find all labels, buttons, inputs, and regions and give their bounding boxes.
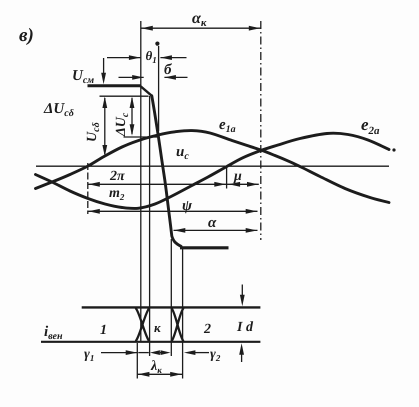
vertical extension line V4 (steep line bottom to lower diagram, x=171.3)	[170, 239, 172, 356]
Id height arrow above top line	[240, 285, 245, 307]
dimension lambda_k (y=374.3)	[138, 372, 182, 377]
dimension row gamma1 / k-gap / gamma2 (y=352.6)	[101, 350, 209, 355]
label Id	[236, 320, 254, 335]
label e2a	[361, 115, 396, 152]
vertical extension line V5 (end of commutation to lower diagram, x=182.6)	[182, 247, 184, 379]
valve current baseline	[41, 341, 260, 343]
svg-text:α: α	[208, 215, 217, 231]
dash-dot vertical line at curve crossing (x=260.8)	[260, 21, 262, 240]
svg-text:e2а: e2а	[361, 115, 380, 137]
extension line at uc/e1a crossing level (y=137)	[124, 136, 158, 138]
svg-text:2π: 2π	[109, 169, 125, 184]
svg-text:uс: uс	[176, 144, 189, 162]
extension line below Ucm level (reference y=96)	[100, 95, 149, 97]
flat bottom segment of uc	[180, 246, 229, 249]
label 1 (valve 1 interval)	[100, 323, 107, 338]
svg-text:αк: αк	[192, 10, 207, 29]
svg-text:iвен: iвен	[44, 324, 63, 342]
svg-text:γ2: γ2	[210, 347, 221, 363]
label gamma1	[84, 347, 94, 363]
tick at e2a zero crossing (x=226.6, mu left limit)	[226, 167, 228, 189]
label 2 (valve 2 interval)	[203, 322, 211, 337]
vertical extension line V3 (from bend point down to lower diagram, x=149.6)	[149, 96, 151, 356]
svg-text:λк: λк	[150, 359, 162, 375]
label Delta U_c_delta	[43, 101, 74, 119]
svg-text:μ: μ	[233, 169, 242, 184]
Ucm level thick line	[88, 84, 141, 87]
dimension theta_1	[107, 48, 187, 65]
curve e2a (phase EMF 2)	[36, 133, 390, 208]
label e1a	[219, 117, 236, 135]
dimension alpha (y=230.4)	[174, 215, 258, 233]
current transfer crossing X1 (valve 1 to short circuit)	[136, 308, 150, 341]
label i_ven	[44, 324, 63, 342]
label mu	[233, 169, 242, 184]
svg-text:Uсδ: Uсδ	[85, 122, 102, 142]
dimension alpha_k (top)	[141, 10, 261, 31]
svg-text:в): в)	[19, 25, 34, 46]
vertical extension line V1 (left limit of alpha_k / theta1, x=140.8)	[140, 21, 142, 342]
label v) figure marker	[19, 25, 34, 46]
current transfer crossing X2 (short circuit to valve 2)	[171, 308, 183, 341]
valve current top line (level Id)	[82, 306, 261, 308]
svg-text:e1а: e1а	[219, 117, 236, 135]
label lambda_k	[150, 359, 162, 375]
bend from Ucm level down	[140, 86, 152, 96]
svg-text:к: к	[154, 320, 161, 335]
svg-text:1: 1	[100, 323, 107, 338]
svg-text:ψ: ψ	[182, 198, 193, 214]
steep switching drop of uc	[152, 96, 181, 247]
label U_cm with down arrow	[72, 58, 106, 86]
vertical extension line V2 (right limit of theta1, x=158.6) with dot on top	[155, 42, 159, 132]
label u_c	[176, 144, 189, 162]
svg-text:ΔUсδ: ΔUсδ	[43, 101, 74, 119]
svg-text:Uсм: Uсм	[72, 68, 94, 86]
dimension psi (y=211.3)	[88, 198, 258, 214]
svg-text:θ1: θ1	[146, 48, 157, 65]
svg-text:б: б	[164, 62, 172, 78]
svg-text:I d: I d	[236, 320, 254, 335]
label k (commutation interval)	[154, 320, 161, 335]
svg-text:m2: m2	[109, 186, 125, 202]
horizontal axis (omega-t axis)	[36, 165, 389, 167]
svg-text:2: 2	[203, 322, 211, 337]
dimension Delta U_c (vertical, x=132)	[114, 97, 134, 138]
dimension line 2pi/m2 and mu (y=184.3)	[88, 182, 259, 187]
dashed vertical line at e1a zero crossing (x=87.8)	[87, 163, 89, 214]
dimension U_c_delta (vertical, x=104.8)	[85, 97, 107, 157]
vertical extension line lambda_k left (x=137.3)	[136, 343, 138, 379]
svg-text:ΔUс: ΔUс	[114, 112, 131, 137]
dimension delta (b)	[119, 62, 188, 80]
Id height arrow below baseline	[239, 343, 244, 362]
label gamma2	[210, 347, 221, 363]
curve e1a (phase EMF 1)	[36, 131, 390, 203]
svg-text:γ1: γ1	[84, 347, 94, 363]
label fraction 2pi/m2	[109, 169, 125, 202]
